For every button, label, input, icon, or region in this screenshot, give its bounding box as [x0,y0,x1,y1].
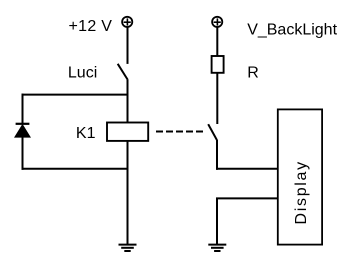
resistor R box [212,56,224,73]
wire ground branch down [216,198,218,244]
wire Display pin 2 to ground branch [216,197,279,199]
wire diode bottom vertical [22,137,24,170]
wire switch to relay coil [127,79,129,124]
wire relay coil to ground [127,140,129,245]
wire switch S2 down [216,140,218,170]
svg-text:+12 V: +12 V [69,18,113,35]
terminal V_BackLight [212,17,222,27]
Display box [278,109,322,244]
wire terminal to resistor R [216,27,218,57]
svg-text:Display: Display [293,160,310,224]
diode D1 triangle [15,125,30,137]
relay K1 coil box [107,123,148,141]
switch S2 (relay contact) blade [208,124,217,140]
svg-text:K1: K1 [76,125,96,142]
wire resistor to switch S2 [216,72,218,124]
svg-text:V_BackLight: V_BackLight [247,21,337,38]
diode D1 cathode bar [16,123,30,125]
ground GND2 [208,245,226,251]
svg-text:Luci: Luci [68,65,97,82]
wire to Display pin 1 [216,168,279,170]
wire branch to diode (top) [22,94,128,96]
dashed link K1 to switch S2 [156,131,203,133]
switch S1 (Luci) blade [118,64,128,80]
ground GND1 [119,245,137,251]
svg-text:R: R [247,65,259,82]
wire terminal to switch S1 [127,27,129,64]
terminal +12V [122,17,132,27]
wire diode top vertical [22,94,24,124]
wire bottom branch to relay net [22,168,128,170]
